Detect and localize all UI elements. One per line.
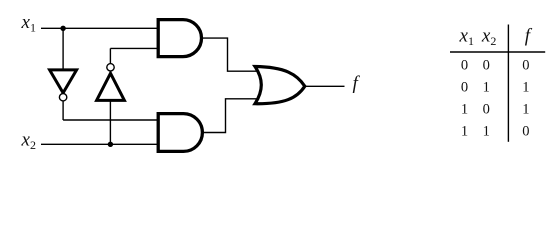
svg-text:1: 1 bbox=[461, 124, 468, 140]
svg-text:1: 1 bbox=[522, 80, 529, 96]
wire G1 bubble to corner bbox=[62, 101, 64, 120]
svg-text:0: 0 bbox=[522, 57, 529, 73]
wire x2 up to NOT gate G2 bbox=[109, 100, 111, 144]
AND gate G4 (bottom) bbox=[158, 114, 202, 152]
svg-text:0: 0 bbox=[522, 124, 529, 140]
junction on x1 wire bbox=[60, 26, 65, 31]
wire x1 down to NOT gate G1 bbox=[62, 28, 64, 70]
NOT gate G1 (inverter pointing down) bbox=[50, 70, 77, 93]
svg-text:f: f bbox=[353, 73, 361, 94]
svg-text:x2: x2 bbox=[481, 25, 496, 48]
svg-text:0: 0 bbox=[461, 80, 468, 96]
junction on x2 wire bbox=[108, 142, 113, 147]
truth table vertical rule bbox=[507, 25, 509, 142]
wire G2 bubble up to corner bbox=[109, 48, 111, 63]
svg-text:x2: x2 bbox=[21, 129, 36, 152]
svg-text:0: 0 bbox=[483, 102, 490, 118]
svg-text:1: 1 bbox=[483, 124, 490, 140]
svg-text:x1: x1 bbox=[459, 25, 474, 48]
truth table header rule bbox=[450, 51, 545, 53]
wire G1 output horizontal to AND G4 bbox=[63, 119, 160, 121]
svg-text:x1: x1 bbox=[21, 12, 36, 35]
wire f output bbox=[304, 85, 345, 87]
wire G4 output to OR bottom input bbox=[200, 99, 258, 133]
svg-text:1: 1 bbox=[483, 80, 490, 96]
svg-text:1: 1 bbox=[522, 102, 529, 118]
wire G2 output horizontal to AND G3 bbox=[110, 47, 160, 49]
OR gate G5 bbox=[255, 67, 305, 104]
svg-text:0: 0 bbox=[483, 57, 490, 73]
AND gate G3 (top) bbox=[158, 20, 201, 57]
wire x2 input horizontal bbox=[41, 143, 160, 145]
svg-text:0: 0 bbox=[461, 57, 468, 73]
svg-text:1: 1 bbox=[461, 102, 468, 118]
wire x1 input horizontal bbox=[41, 27, 159, 29]
svg-text:f: f bbox=[525, 25, 533, 46]
wire G3 output to OR top input bbox=[200, 38, 258, 71]
bubble of G2 bbox=[107, 64, 114, 71]
NOT gate G2 (inverter pointing up) bbox=[97, 73, 125, 100]
bubble of G1 bbox=[59, 94, 66, 101]
